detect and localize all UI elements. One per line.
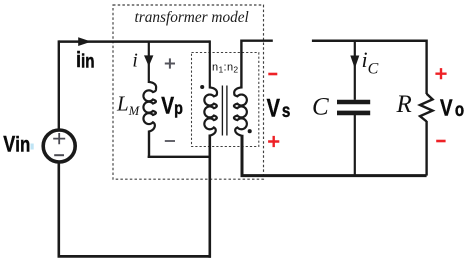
wire: bottom rail primary (58, 255, 212, 258)
arrow i_C (350, 56, 359, 69)
transformer primary stem down to bottom rail (209, 135, 212, 258)
wire: left vertical (source bottom) (57, 164, 60, 257)
wire: capacitor top lead (354, 41, 356, 100)
svg-text:n1:n2: n1:n2 (212, 62, 239, 75)
label V_in (3, 133, 30, 157)
wire: left vertical (source top) (58, 40, 60, 129)
label + (V_p plus, gray) (165, 58, 175, 68)
transformer secondary winding coil (mirrored) (234, 88, 247, 136)
svg-text:iin: iin (76, 48, 94, 72)
svg-text:Vo: Vo (440, 95, 464, 122)
label V_o (440, 95, 464, 122)
svg-text:R: R (396, 91, 412, 118)
capacitor C plates (337, 100, 370, 105)
outer dashed box (transformer model) (113, 5, 264, 179)
label i_in (76, 48, 94, 72)
wire: top rail right section (312, 39, 427, 42)
svg-text:C: C (312, 94, 329, 121)
label - (V_o minus, red) (436, 140, 445, 143)
label - (V_p minus, gray) (165, 140, 175, 142)
cyan smudge artifact (31, 144, 34, 150)
dot: primary polarity (200, 85, 204, 89)
transformer primary winding coil (204, 88, 217, 136)
inner dashed box (ideal transformer) (192, 53, 259, 147)
svg-text:transformer model: transformer model (135, 9, 249, 26)
svg-text:i: i (132, 50, 137, 71)
source minus sign (54, 154, 64, 156)
resistor R zigzag (420, 94, 433, 122)
wire: resistor bottom lead (425, 121, 427, 176)
voltage source V_in (43, 130, 75, 162)
label V_s (267, 95, 291, 123)
arrow i (into L_M) (144, 55, 153, 66)
wire: secondary bottom stem and bottom rail right (241, 135, 427, 176)
core lines (222, 86, 227, 136)
transformer primary winding stem (top) (209, 40, 211, 88)
wire: capacitor bottom lead (354, 115, 356, 176)
label + (V_o plus, red) (435, 68, 446, 79)
wire: L_M branch from top rail (148, 42, 150, 83)
svg-text:Vs: Vs (267, 95, 291, 123)
label + (V_s plus, red) (268, 136, 279, 147)
wire: resistor top lead (425, 40, 427, 95)
label V_p (161, 91, 183, 119)
inductor L_M coil (143, 82, 156, 132)
wire: L_M bottom to primary bottom (148, 131, 211, 157)
wire: top rail primary (59, 40, 210, 43)
wire: secondary top stem and stub (240, 41, 273, 89)
source plus sign (53, 133, 65, 144)
arrow i_in on top wire (78, 37, 91, 46)
label - (V_s minus, red) (268, 73, 277, 76)
dot: secondary polarity (248, 129, 252, 133)
svg-text:Vin: Vin (3, 133, 30, 157)
